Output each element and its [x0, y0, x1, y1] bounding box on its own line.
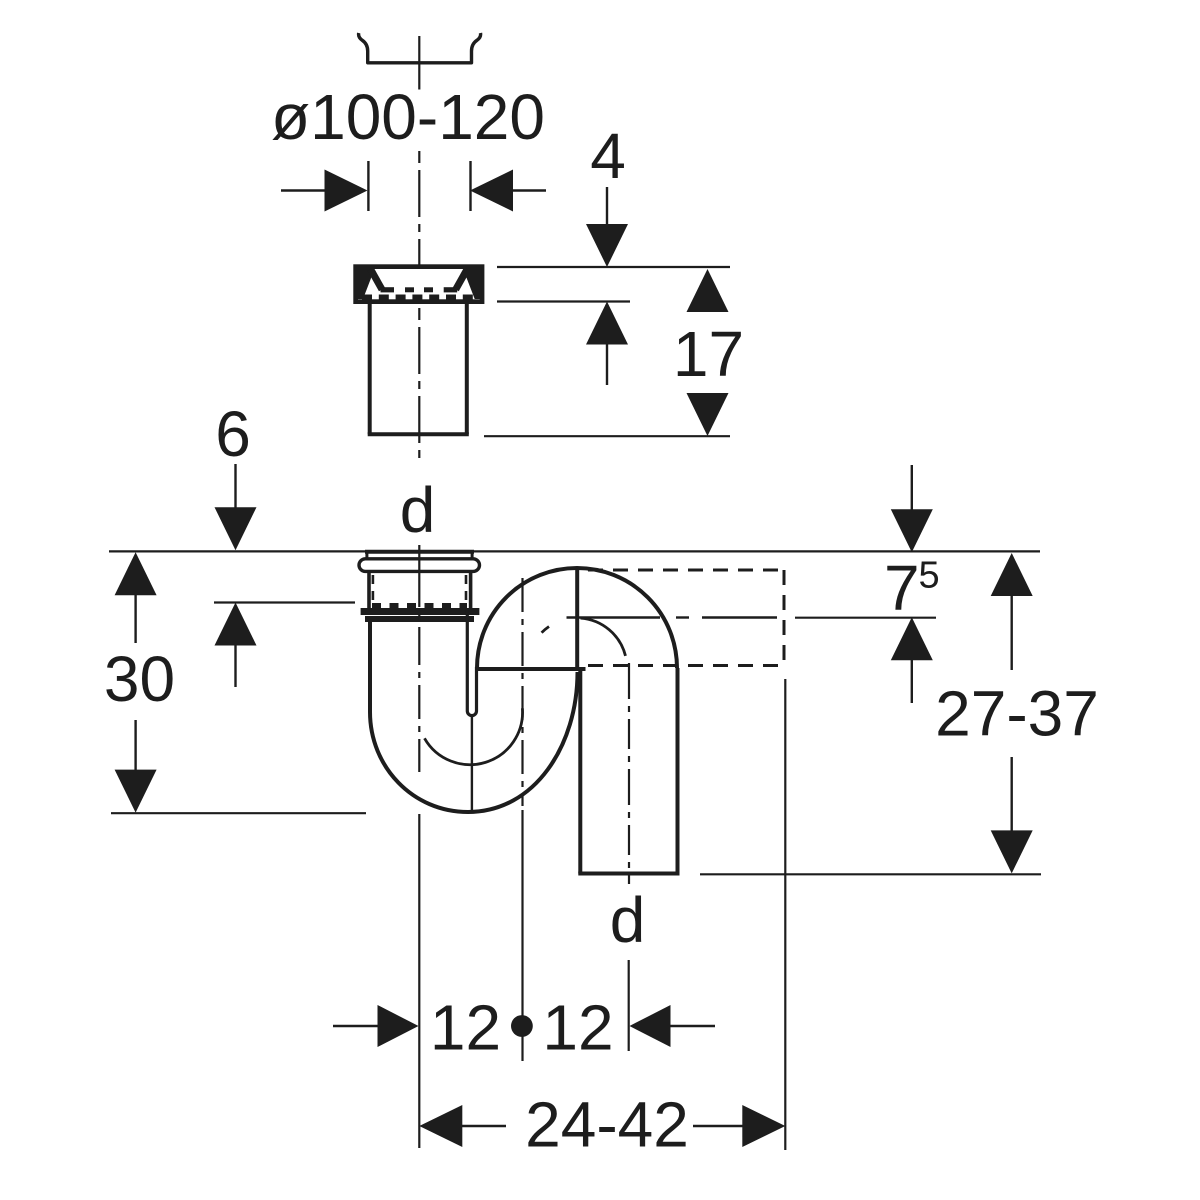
trap weir seam vertical [471, 716, 473, 812]
extension line inlet axis lower [418, 814, 420, 1148]
dim 17 arrow up [687, 269, 729, 312]
label 7 superscript 5 [884, 552, 940, 624]
reference line C pipe bottom [484, 435, 730, 437]
dim 24-42 arrow right-pointing [693, 1105, 785, 1147]
centerline vertical outlet axis [628, 663, 630, 884]
dim dia extension line right [469, 161, 471, 211]
outlet bend seam horizontal [477, 667, 586, 671]
dim 7.5 arrow up [891, 617, 933, 703]
svg-text:12: 12 [542, 992, 613, 1064]
dim 27-37 arrow up [991, 553, 1033, 670]
dim 17 arrow down [687, 393, 729, 436]
centerline trap symmetry axis [521, 578, 523, 806]
dim 30 arrow up [115, 552, 157, 643]
svg-text:ø100-120: ø100-120 [271, 81, 545, 153]
reference line F trap bottom [111, 812, 366, 814]
dim dia extension line left [367, 161, 369, 211]
dim 30 arrow down [115, 720, 157, 813]
outlet bend seam vertical [575, 569, 579, 669]
outlet bend inner arc [581, 618, 626, 656]
trap body outline left (inlet leg and bottom bend) [370, 621, 578, 812]
dim 7.5 arrow down [891, 465, 933, 552]
svg-text:7: 7 [884, 552, 920, 624]
svg-text:5: 5 [919, 555, 940, 597]
reference line A flange top [497, 266, 730, 268]
dim dia arrow left [281, 170, 368, 212]
dim 4 arrow up [586, 302, 628, 386]
dim 4 arrow down [586, 187, 628, 267]
dim 6 arrow down [215, 464, 257, 550]
dim dia arrow right [470, 170, 546, 212]
dim 12 arrow right-pointing [333, 1005, 419, 1047]
centerline trap inlet axis [418, 545, 420, 772]
dim 6 arrow up [215, 603, 257, 688]
svg-text:4: 4 [590, 120, 626, 192]
extension line outlet axis lower [628, 960, 630, 1051]
dim 24-42 arrow left-pointing [419, 1105, 506, 1147]
bottom bend inner arc [425, 708, 523, 764]
reference line D mounting level [109, 550, 1040, 552]
flange tailpipe [368, 303, 469, 434]
outlet bend inner arc hidden dash [542, 627, 549, 633]
svg-text:12: 12 [430, 992, 501, 1064]
reference line G 7.5 lower [795, 617, 936, 619]
dim 12 arrow left-pointing [630, 1005, 716, 1047]
reference line B flange bottom [497, 300, 630, 302]
svg-text:6: 6 [215, 398, 251, 470]
extension line 24-42 right [784, 679, 786, 1150]
trap inner weir wall [467, 610, 476, 716]
outlet pipe [578, 668, 679, 874]
wall flange body [356, 267, 482, 302]
svg-text:30: 30 [104, 643, 175, 715]
alternate outlet position dashed [588, 570, 784, 666]
svg-text:d: d [610, 884, 646, 956]
svg-text:d: d [400, 474, 436, 546]
centerline horizontal outlet axis [567, 616, 778, 619]
symmetry axis solid segment with center dot [511, 810, 533, 1061]
svg-text:24-42: 24-42 [525, 1089, 689, 1161]
svg-text:27-37: 27-37 [935, 678, 1099, 750]
reference line H outlet bottom [700, 873, 1041, 875]
dim 27-37 arrow down [991, 757, 1033, 873]
centerline inlet axis (top fitting) [418, 36, 420, 90]
trap outlet bend outer arc [477, 568, 677, 668]
reference line E insertion depth [214, 601, 355, 603]
trap inlet socket [359, 551, 480, 619]
appliance outline (sink cross-section symbol) [359, 33, 481, 63]
svg-text:17: 17 [673, 318, 744, 390]
